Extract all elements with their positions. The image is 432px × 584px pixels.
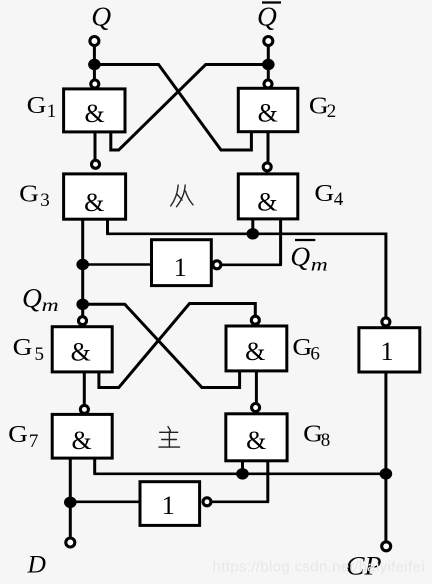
wire Qbar terminal to G2 bubble: [267, 43, 270, 82]
junction Qm: [76, 299, 89, 310]
wire G6 bubble riser and master cross left: [99, 304, 255, 388]
wire G8 left stub: [241, 461, 244, 474]
svg-text:4: 4: [334, 189, 344, 210]
bubble G7: [80, 405, 88, 413]
svg-text:&: &: [246, 426, 266, 455]
gate G5 box: [52, 327, 112, 372]
svg-text:m: m: [311, 255, 328, 275]
terminal CP: [382, 542, 391, 551]
label cong (slave) drawn glyph: [171, 185, 193, 207]
svg-text:Q: Q: [257, 0, 277, 31]
terminal Qbar: [264, 37, 273, 46]
svg-text:3: 3: [40, 190, 50, 211]
bubble bottom inverter output: [203, 498, 211, 506]
label zhu (master) drawn glyph: [159, 427, 180, 448]
bubble right inverter input: [382, 318, 390, 326]
wire G3 down through junctions to G5 bubble: [81, 219, 84, 315]
bubble G3: [92, 160, 100, 168]
wire junction to middle inverter input: [83, 263, 152, 266]
svg-text:G: G: [13, 334, 33, 361]
wire G2 output to G4 bubble: [267, 132, 270, 162]
bubble G5: [79, 317, 87, 325]
wire D junction to bottom inverter input: [70, 500, 140, 503]
junction D: [64, 497, 77, 508]
bubble G4: [263, 163, 271, 171]
svg-text:D: D: [27, 550, 47, 579]
svg-text:&: &: [71, 426, 91, 455]
gate G6 box: [226, 326, 287, 371]
svg-text:&: &: [84, 188, 104, 217]
bubble G6: [251, 316, 259, 324]
gate G7 box: [52, 414, 112, 458]
junction inverter input: [76, 259, 89, 270]
svg-text:7: 7: [29, 431, 39, 452]
svg-text:&: &: [84, 99, 104, 128]
svg-text:G: G: [292, 334, 312, 361]
svg-text:&: &: [245, 337, 265, 366]
svg-text:1: 1: [162, 490, 175, 520]
junction under G8: [236, 468, 249, 479]
terminal D: [66, 538, 75, 547]
wire right inverter output down to CP terminal: [384, 372, 387, 541]
svg-text:G: G: [309, 92, 329, 119]
wire G3 right stub to node under G4: [106, 219, 109, 234]
wire G4 left stub: [251, 219, 254, 234]
svg-text:m: m: [42, 295, 59, 315]
gate G3 box: [64, 174, 126, 219]
bubble G8: [252, 404, 260, 412]
svg-text:&: &: [258, 99, 278, 128]
svg-text:5: 5: [35, 344, 45, 365]
svg-text:1: 1: [47, 101, 57, 122]
svg-text:2: 2: [327, 101, 337, 122]
gate G1 box: [64, 89, 125, 132]
wire G4 right stub to middle inverter output: [279, 219, 282, 265]
svg-text:Q: Q: [22, 282, 42, 313]
gate G2 box: [238, 88, 297, 131]
wire G5 output to G7 bubble: [83, 372, 86, 404]
wire G7 right stub and long horizontal to CP line: [93, 458, 96, 474]
wire Q junction to cross right: [94, 65, 251, 151]
bubble G2: [264, 80, 272, 88]
svg-text:1: 1: [380, 336, 393, 366]
svg-text:G: G: [8, 421, 28, 448]
inverter 1 bottom box: [140, 482, 200, 526]
svg-text:&: &: [71, 337, 91, 366]
svg-text:6: 6: [310, 343, 320, 364]
svg-text:1: 1: [174, 252, 187, 282]
wire G6 output to G8 bubble: [255, 371, 258, 402]
gate G8 box: [226, 414, 287, 461]
bubble middle inverter output: [213, 261, 221, 269]
gate G4 box: [238, 174, 297, 219]
svg-text:https://blog.csdn.net/baiyifei: https://blog.csdn.net/baiyifeifei: [213, 559, 426, 576]
wire G7 left stub down to D terminal: [69, 458, 72, 537]
junction Q: [88, 59, 101, 70]
inverter 1 right box: [359, 328, 420, 372]
svg-text:Q: Q: [91, 1, 111, 32]
inverter 1 middle box: [152, 240, 212, 286]
svg-text:8: 8: [321, 430, 331, 451]
svg-text:Q: Q: [290, 240, 310, 271]
junction CP: [380, 468, 393, 479]
junction Qbar: [262, 59, 275, 70]
wire Qm junction to master cross right: [83, 304, 240, 387]
junction under G4: [247, 228, 260, 239]
svg-text:G: G: [27, 92, 47, 119]
wire Qbar junction to cross left: [111, 65, 268, 151]
bubble G1: [91, 80, 99, 88]
terminal Q: [90, 37, 99, 46]
wire G8 right stub to bottom inverter output: [266, 461, 269, 502]
svg-text:G: G: [19, 180, 39, 207]
wire Q terminal to G1 bubble: [93, 43, 96, 82]
svg-text:&: &: [257, 188, 277, 217]
wire node under G4 to right inverter input: [253, 233, 386, 236]
wire G1 output to G3 bubble: [94, 132, 97, 159]
svg-text:G: G: [314, 180, 334, 207]
